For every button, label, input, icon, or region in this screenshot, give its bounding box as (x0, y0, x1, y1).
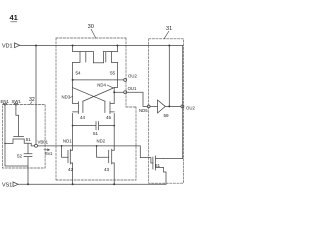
svg-text:61: 61 (155, 163, 161, 168)
svg-text:55: 55 (110, 70, 116, 75)
svg-text:45: 45 (106, 115, 112, 120)
svg-text:51: 51 (93, 131, 99, 136)
svg-text:54: 54 (76, 70, 82, 75)
svg-text:59: 59 (164, 113, 170, 118)
svg-text:32: 32 (29, 97, 35, 103)
svg-text:30: 30 (88, 24, 94, 30)
svg-text:SW1: SW1 (12, 99, 22, 104)
svg-text:44: 44 (80, 115, 86, 120)
svg-text:52: 52 (17, 153, 23, 158)
svg-text:OU1: OU1 (128, 86, 137, 91)
svg-text:ND5: ND5 (139, 108, 148, 113)
svg-text:31: 31 (166, 26, 172, 32)
svg-text:OU2: OU2 (186, 105, 195, 110)
svg-text:ND4: ND4 (97, 82, 106, 87)
svg-text:VD1: VD1 (2, 43, 13, 49)
svg-text:EN1: EN1 (1, 99, 10, 104)
svg-text:43: 43 (104, 167, 110, 172)
svg-text:ND2: ND2 (97, 139, 106, 144)
svg-text:VB01: VB01 (38, 140, 49, 145)
svg-text:ND3: ND3 (62, 95, 71, 100)
svg-text:ND1: ND1 (63, 139, 72, 144)
svg-text:Sv1: Sv1 (45, 151, 53, 156)
svg-text:VS1: VS1 (2, 182, 12, 188)
svg-text:51: 51 (26, 137, 32, 142)
svg-text:42: 42 (68, 167, 74, 172)
svg-text:41: 41 (10, 13, 18, 22)
svg-text:OU2: OU2 (128, 73, 137, 78)
